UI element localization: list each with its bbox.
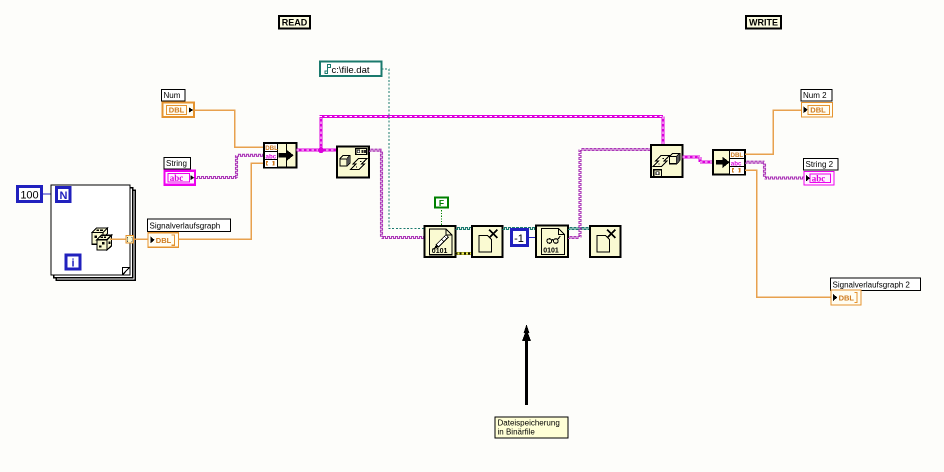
wire tunnel to Signalverlaufsgraph xyxy=(134,238,148,240)
svg-text:abc: abc xyxy=(731,160,742,167)
loop output tunnel (auto-indexing) xyxy=(126,236,134,244)
svg-text:DBL: DBL xyxy=(169,105,185,114)
label String 2 xyxy=(804,159,839,171)
svg-text:Num: Num xyxy=(164,91,181,100)
wire Unbundle array to Signalverlaufsgraph 2 xyxy=(745,170,831,297)
svg-text:WRITE: WRITE xyxy=(749,18,778,28)
svg-text:i: i xyxy=(71,258,74,270)
label Dateispeicherung in Binärfile xyxy=(495,417,568,438)
control terminal String (abc) xyxy=(165,171,196,185)
Unflatten From String function xyxy=(651,145,683,177)
wire Read File data to Unflatten (string) xyxy=(568,237,580,239)
label WRITE xyxy=(746,16,781,29)
svg-text:0101: 0101 xyxy=(432,248,448,255)
for-loop frame (stacked pages) xyxy=(56,190,135,280)
svg-text:in Binärfile: in Binärfile xyxy=(498,428,536,437)
svg-text:DBL: DBL xyxy=(810,105,826,114)
svg-text:c:\file.dat: c:\file.dat xyxy=(332,65,370,76)
wire Signalverlaufsgraph to Bundle (array branch) xyxy=(179,163,265,239)
wire dice to tunnel xyxy=(110,238,126,240)
loop count terminal N xyxy=(57,188,71,202)
label Signalverlaufsgraph 2 xyxy=(831,278,921,291)
wire path constant to Write File (path) xyxy=(382,69,425,229)
control terminal Num (DBL) xyxy=(163,103,195,118)
wire String to Bundle (string) xyxy=(196,177,237,179)
label Num 2 xyxy=(801,90,832,102)
wire error cluster Write to Close xyxy=(456,252,473,255)
indicator terminal Signalverlaufsgraph [DBL] xyxy=(148,233,179,247)
wire junction to Flatten xyxy=(321,149,337,152)
svg-text:Dateispeicherung: Dateispeicherung xyxy=(498,419,560,428)
svg-text:Signalverlaufsgraph 2: Signalverlaufsgraph 2 xyxy=(833,281,911,290)
svg-text:DBL: DBL xyxy=(839,294,855,303)
annotation arrow xyxy=(524,325,530,334)
svg-text:abc: abc xyxy=(812,173,826,183)
wire Unbundle abc to String 2 xyxy=(745,161,765,163)
Write File function (0101) xyxy=(425,226,456,257)
path constant c:\file.dat xyxy=(320,62,382,77)
wire junction up-riser xyxy=(320,117,323,151)
wire Unflatten to Unbundle (cluster) xyxy=(683,156,701,159)
wire Read File to Close File 2 (refnum) xyxy=(568,228,590,230)
wire F to Write File (boolean) xyxy=(441,208,443,227)
wire -1 to Read File (count) xyxy=(528,237,537,239)
wire Unbundle DBL to Num 2 xyxy=(745,110,801,154)
Unbundle function xyxy=(713,150,745,175)
label Num xyxy=(162,90,186,102)
loop iteration terminal i xyxy=(66,255,80,269)
Close File function xyxy=(472,226,503,257)
indicator terminal String 2 (abc) xyxy=(804,172,834,186)
svg-text:READ: READ xyxy=(282,18,308,28)
label Signalverlaufsgraph xyxy=(148,219,231,232)
svg-text:String 2: String 2 xyxy=(806,160,834,169)
wire cluster drop into Unflatten xyxy=(662,117,665,146)
svg-text:N: N xyxy=(60,190,68,202)
boolean constant F xyxy=(435,198,448,208)
Read File function (0101) xyxy=(536,226,568,258)
wire top cluster run to WRITE side xyxy=(320,115,664,118)
wire Bundle output to junction xyxy=(297,149,322,152)
svg-text:0101: 0101 xyxy=(543,248,559,255)
Flatten To String function xyxy=(337,147,369,178)
svg-text:String: String xyxy=(166,159,187,168)
svg-text:DBL: DBL xyxy=(156,236,172,245)
Bundle function xyxy=(264,143,297,168)
wire Write File to Close File (refnum) xyxy=(456,228,473,230)
wire Flatten output to Write File (binary string) xyxy=(369,149,382,151)
svg-text:-1: -1 xyxy=(514,233,524,245)
numeric constant -1 xyxy=(512,230,528,246)
junction dot xyxy=(318,147,324,153)
indicator terminal Num 2 (DBL) xyxy=(802,103,833,118)
svg-text:abc: abc xyxy=(266,153,277,160)
numeric constant 100 xyxy=(18,187,42,202)
svg-text:abc: abc xyxy=(170,173,184,183)
Close File function 2 xyxy=(590,226,621,257)
svg-text:DBL: DBL xyxy=(731,152,744,159)
svg-text:100: 100 xyxy=(20,190,38,202)
wire Num to Bundle (DBL) xyxy=(195,110,265,147)
wire 100 to N xyxy=(42,193,56,195)
label READ xyxy=(279,16,310,29)
svg-text:Num 2: Num 2 xyxy=(803,91,827,100)
wire Close File to Read File (refnum) xyxy=(503,228,537,230)
label String xyxy=(164,158,191,170)
svg-text:Signalverlaufsgraph: Signalverlaufsgraph xyxy=(150,222,221,231)
random number (dice) function xyxy=(92,228,112,250)
svg-text:F: F xyxy=(439,198,444,208)
indicator terminal Signalverlaufsgraph 2 [DBL] xyxy=(831,290,861,305)
svg-text:DBL: DBL xyxy=(265,145,278,152)
